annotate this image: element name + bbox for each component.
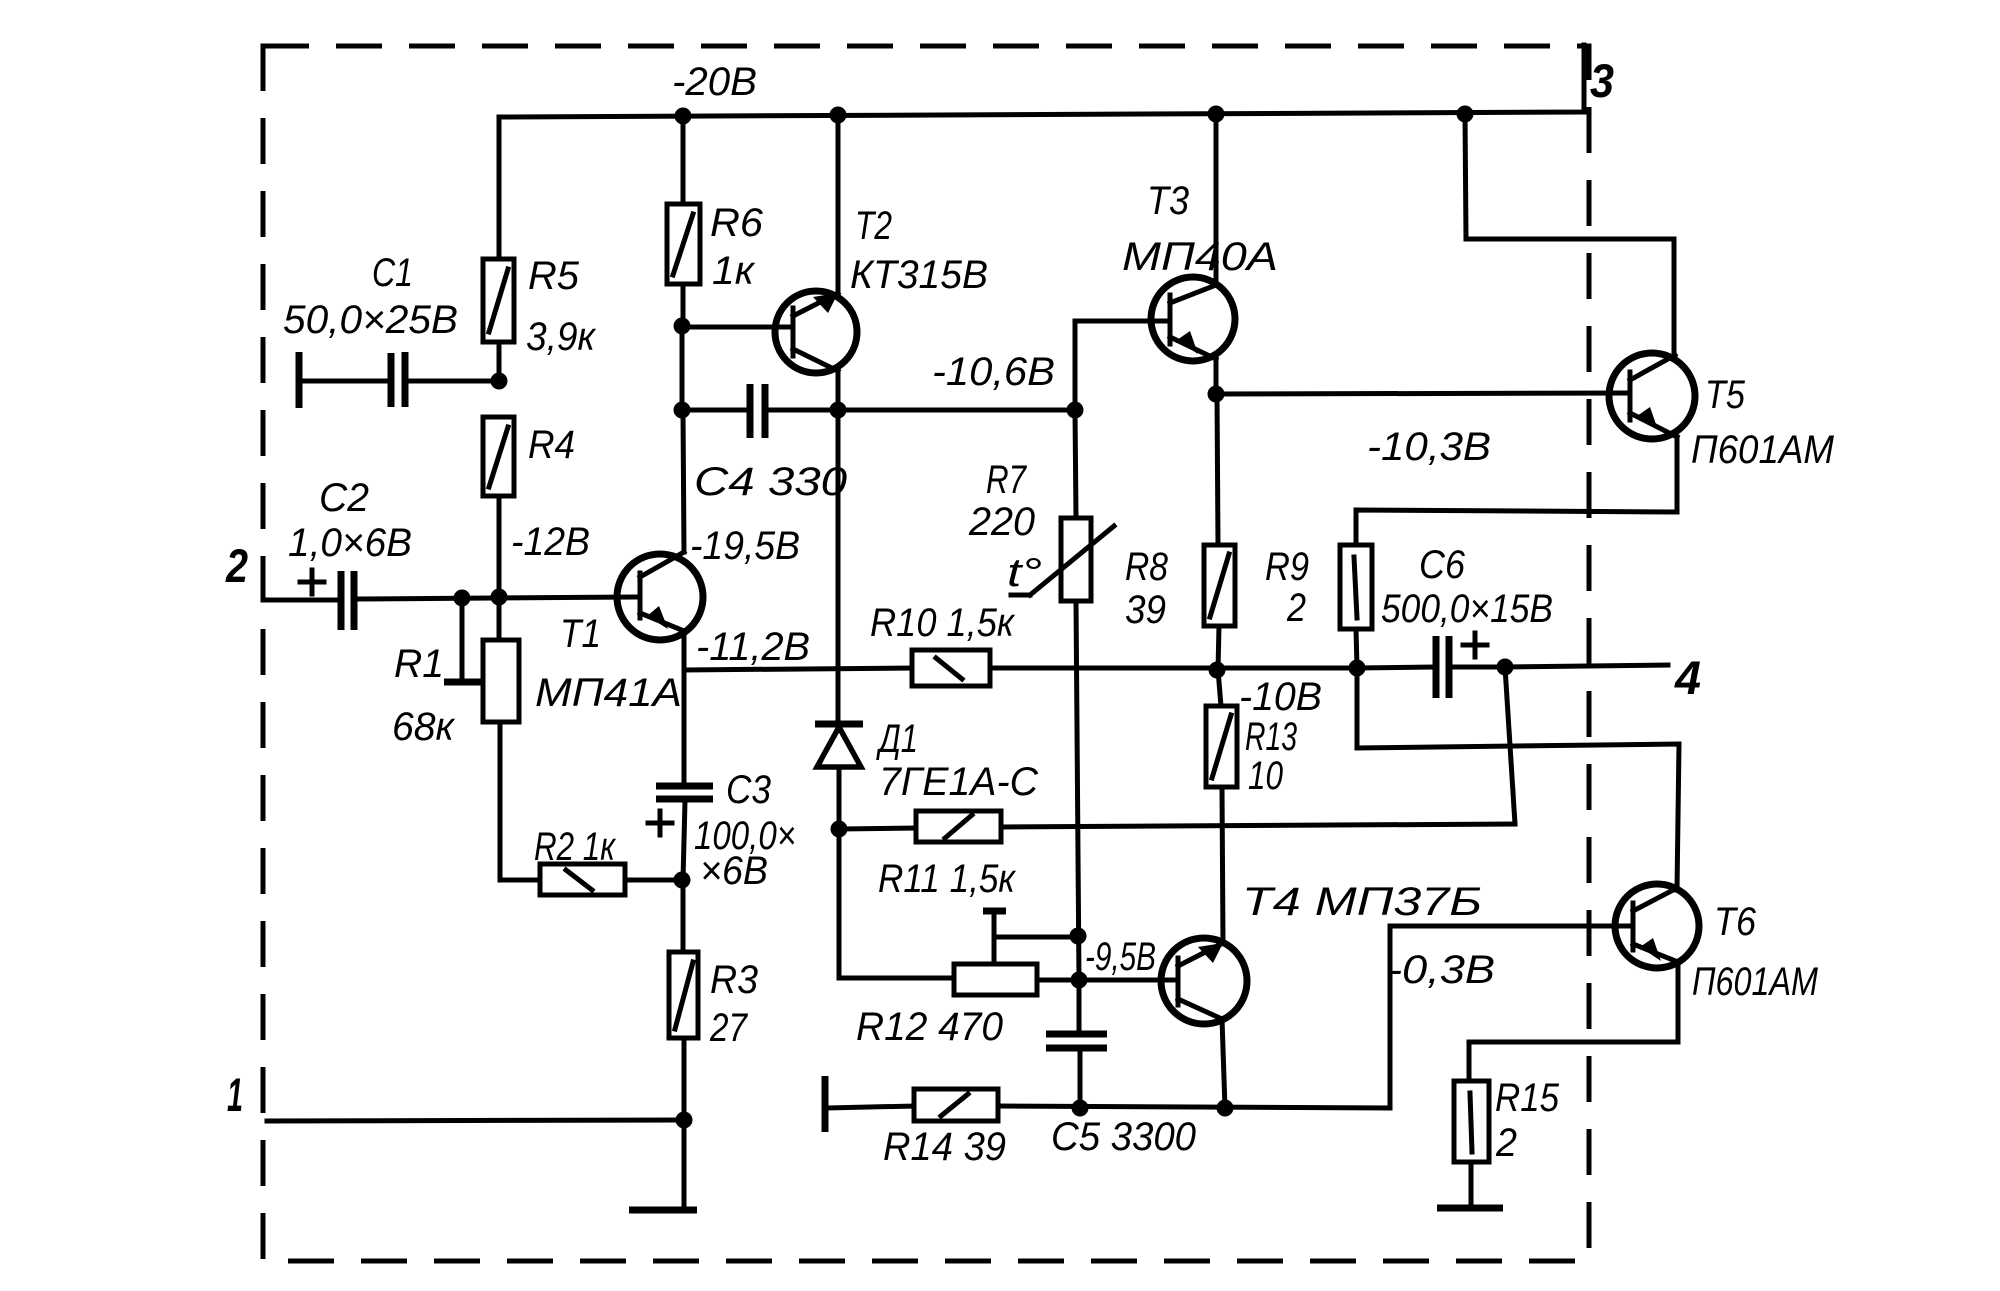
svg-text:-9,5В: -9,5В xyxy=(1085,935,1156,979)
ground under R3 xyxy=(629,1120,697,1210)
resistor R1 68k xyxy=(392,597,519,880)
svg-text:П601АМ: П601АМ xyxy=(1691,428,1835,472)
wire T3 emitter to T5 base xyxy=(1216,393,1630,394)
capacitor C2 1,0x6В (input coupling) xyxy=(263,476,640,630)
capacitor C4 330 xyxy=(682,384,1075,504)
capacitor C6 500,0x15В (output electrolytic) xyxy=(1357,543,1553,698)
resistor R4 xyxy=(483,417,575,595)
transistor T2 КТ315В xyxy=(775,115,988,410)
svg-text:Т4 МП37Б: Т4 МП37Б xyxy=(1242,880,1482,924)
svg-text:-10,6В: -10,6В xyxy=(932,350,1055,394)
ground under R15 xyxy=(1437,1205,1503,1212)
wire T2 base xyxy=(682,325,793,330)
svg-text:R4: R4 xyxy=(528,423,575,467)
svg-text:-20В: -20В xyxy=(672,60,757,104)
svg-text:-12В: -12В xyxy=(511,520,590,564)
transistor T4 МП37Б xyxy=(1079,880,1482,1108)
svg-text:500,0×15В: 500,0×15В xyxy=(1381,587,1553,631)
wire mid node to T6 collector xyxy=(1357,668,1679,890)
junction T1 base node xyxy=(491,589,508,606)
svg-text:R6: R6 xyxy=(710,201,764,245)
wire: -20V top rail xyxy=(499,45,1584,117)
resistor R15 2 xyxy=(1454,1076,1560,1206)
svg-text:t°: t° xyxy=(1007,551,1042,595)
svg-text:68к: 68к xyxy=(392,705,456,749)
svg-text:Т3: Т3 xyxy=(1147,179,1189,223)
svg-text:Т2: Т2 xyxy=(855,204,892,248)
junction rail/T3 collector xyxy=(1208,106,1225,123)
svg-text:3,9к: 3,9к xyxy=(526,315,597,359)
svg-text:R8: R8 xyxy=(1125,545,1169,589)
svg-text:Д1: Д1 xyxy=(876,717,918,761)
svg-text:1к: 1к xyxy=(712,249,756,293)
svg-text:C1: C1 xyxy=(372,251,413,295)
junction D1 / R11 / R12 node xyxy=(831,821,848,838)
capacitor C1 50,0x25В xyxy=(283,251,499,408)
junction R6 / T2 base node xyxy=(674,318,691,335)
junction T4 emitter / bottom wire xyxy=(1217,1100,1234,1117)
junction C5 / bottom wire xyxy=(1072,1100,1089,1117)
svg-text:R5: R5 xyxy=(528,254,580,298)
svg-text:-10,3В: -10,3В xyxy=(1367,425,1491,469)
svg-text:39: 39 xyxy=(1125,588,1166,632)
resistor R8 39 xyxy=(1125,394,1235,670)
svg-text:МП40А: МП40А xyxy=(1122,235,1278,279)
svg-text:50,0×25В: 50,0×25В xyxy=(283,298,458,342)
junction C3 / R2 / R3 node xyxy=(674,872,691,889)
junction C4 / R7 / T3 base branch xyxy=(1067,402,1084,419)
svg-text:C2: C2 xyxy=(319,476,369,520)
resistor R14 39 (bottom return) xyxy=(825,1076,1390,1169)
transistor T5 П601АМ xyxy=(1356,114,1835,545)
svg-text:-19,5В: -19,5В xyxy=(690,524,800,568)
svg-text:C4 330: C4 330 xyxy=(694,460,847,504)
trimmer R12 470 xyxy=(839,829,1079,1049)
junction R12 wiper / R7 node xyxy=(1070,928,1087,945)
svg-text:1: 1 xyxy=(227,1068,243,1121)
svg-text:R15: R15 xyxy=(1495,1076,1560,1120)
junction mid node / R9 / T6 collector branch xyxy=(1349,660,1366,677)
svg-text:C3: C3 xyxy=(726,768,771,812)
svg-text:Т6: Т6 xyxy=(1714,900,1757,944)
resistor R10 1,5k (on mid-rail wire) xyxy=(684,601,1357,686)
junction T3 emitter / R8 / T5 base xyxy=(1208,386,1225,403)
junction rail/T2 collector xyxy=(830,107,847,124)
svg-text:3: 3 xyxy=(1590,54,1614,107)
thermistor R7 220 xyxy=(968,410,1114,980)
svg-text:C5 3300: C5 3300 xyxy=(1051,1115,1196,1159)
svg-text:R13: R13 xyxy=(1245,715,1297,759)
svg-text:×6В: ×6В xyxy=(700,849,768,893)
junction T4 base / C5 node xyxy=(1071,972,1088,989)
junction C1/R5/R4 node xyxy=(491,373,508,390)
wire to terminal 1 xyxy=(267,1120,684,1121)
svg-text:R10 1,5к: R10 1,5к xyxy=(870,601,1016,645)
capacitor C3 100,0x6В xyxy=(648,670,796,893)
wire T1 emitter to output mid node xyxy=(682,631,687,670)
svg-text:-0,3В: -0,3В xyxy=(1387,948,1495,992)
transistor T3 МП40А xyxy=(1075,114,1278,410)
resistor R11 1,5k (feedback) xyxy=(841,811,1515,901)
wire T1 collector to C4 node xyxy=(683,411,684,552)
transistor T6 П601АМ xyxy=(1469,884,1819,1081)
capacitor C5 3300 xyxy=(1046,980,1196,1159)
svg-text:2: 2 xyxy=(225,539,248,592)
junction mid node / R8 / R13 xyxy=(1209,662,1226,679)
junction C4 left / R6 node xyxy=(674,402,691,419)
svg-text:П601АМ: П601АМ xyxy=(1692,960,1819,1004)
resistor R6 1k xyxy=(667,116,764,326)
svg-text:R9: R9 xyxy=(1265,545,1309,589)
junction C4 right / T2 emitter / D1 xyxy=(830,402,847,419)
resistor R3 27 xyxy=(669,880,758,1120)
svg-text:-10В: -10В xyxy=(1239,675,1322,719)
svg-text:R14 39: R14 39 xyxy=(883,1125,1006,1169)
svg-text:4: 4 xyxy=(1674,651,1701,704)
junction rail/T5 collector branch xyxy=(1457,106,1474,123)
resistor R5 3,9k xyxy=(483,117,597,381)
svg-text:R2 1к: R2 1к xyxy=(534,825,617,869)
resistor R13 10 xyxy=(1206,670,1297,943)
resistor R2 1k xyxy=(500,825,682,895)
svg-text:2: 2 xyxy=(1495,1121,1517,1165)
svg-text:C6: C6 xyxy=(1419,543,1466,587)
wire R6 node down to C4 node xyxy=(680,326,685,410)
svg-text:2: 2 xyxy=(1286,586,1306,630)
svg-text:7ГЕ1А-С: 7ГЕ1А-С xyxy=(879,760,1039,804)
svg-text:-11,2В: -11,2В xyxy=(696,625,810,669)
junction rail/R5 R6 node xyxy=(675,108,692,125)
svg-text:R1: R1 xyxy=(394,642,444,686)
svg-text:10: 10 xyxy=(1248,754,1283,798)
wire to terminal 4 xyxy=(1505,665,1668,667)
svg-text:Т5: Т5 xyxy=(1705,373,1746,417)
wire output node to R11 feedback xyxy=(1505,667,1515,824)
svg-text:27: 27 xyxy=(709,1006,748,1050)
svg-text:220: 220 xyxy=(968,500,1035,544)
svg-text:Т1: Т1 xyxy=(560,612,601,656)
svg-text:МП41А: МП41А xyxy=(535,671,682,715)
svg-text:1,0×6В: 1,0×6В xyxy=(288,521,412,565)
junction R3 / terminal 1 wire / ground xyxy=(676,1112,693,1129)
svg-text:R11 1,5к: R11 1,5к xyxy=(878,857,1017,901)
svg-text:R7: R7 xyxy=(986,458,1027,502)
transistor T1 МП41А xyxy=(535,552,703,715)
junction C6 / output terminal 4 node xyxy=(1497,659,1514,676)
wire bottom node to T6 base xyxy=(1390,926,1633,1108)
svg-text:КТ315В: КТ315В xyxy=(850,253,988,297)
resistor R9 2 xyxy=(1265,510,1372,668)
svg-text:R3: R3 xyxy=(710,958,758,1002)
svg-text:R12 470: R12 470 xyxy=(856,1005,1003,1049)
diode D1 7ГЕ1А-С xyxy=(815,410,1039,829)
junction input node / R1 tap xyxy=(454,590,471,607)
